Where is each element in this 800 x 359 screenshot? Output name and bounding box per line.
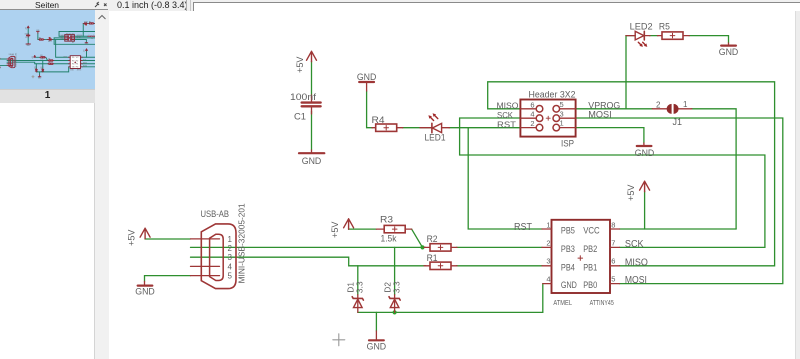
svg-text:MOSI: MOSI <box>625 275 647 286</box>
svg-text:R1: R1 <box>48 62 50 64</box>
net label MISO (ISP left) <box>497 101 520 111</box>
GND symbol above R4 (flipped) <box>357 72 377 91</box>
svg-text:D1: D1 <box>35 66 37 68</box>
LED LED2 <box>626 22 653 47</box>
+5V symbol above C1 <box>295 51 317 73</box>
wire +5V to C1 <box>311 62 313 98</box>
svg-text:GND: GND <box>719 47 739 57</box>
wire USB pin 3 with jog to R1 (D+ net) <box>191 257 426 266</box>
svg-text:ISP: ISP <box>72 42 75 44</box>
wire D1 up to D+ net <box>357 266 359 295</box>
jumper J1 <box>652 100 692 128</box>
LED LED1 <box>420 113 449 143</box>
svg-text:R3: R3 <box>380 215 393 226</box>
zener diode D2 3.3 <box>382 281 401 312</box>
svg-text:+5V: +5V <box>295 57 305 74</box>
svg-text:MISO: MISO <box>83 63 88 65</box>
svg-text:J1: J1 <box>673 117 683 128</box>
wire USB pin 5 to GND <box>145 276 191 282</box>
wire SCK net: ISP pin 4 around to IC pin 7 <box>460 118 765 247</box>
svg-text:ATMEL: ATMEL <box>71 69 74 72</box>
svg-text:RST: RST <box>514 222 532 233</box>
net label RST (IC pin 1) <box>514 222 532 233</box>
svg-text:3: 3 <box>546 257 550 266</box>
wire LED2 to R5 <box>650 35 659 37</box>
svg-text:GND: GND <box>0 68 2 70</box>
svg-text:1: 1 <box>228 235 233 244</box>
zener diode D1 3.3 <box>346 281 365 312</box>
net label MISO (IC pin 6) <box>625 258 648 269</box>
sheet origin cross <box>333 334 345 346</box>
svg-text:PB0: PB0 <box>583 280 597 290</box>
svg-text:C1: C1 <box>25 37 27 39</box>
svg-text:LED1: LED1 <box>425 133 446 144</box>
svg-text:+5V: +5V <box>32 55 34 59</box>
right canvas scrollbar strip <box>795 11 800 359</box>
svg-text:2: 2 <box>546 239 550 248</box>
svg-text:4: 4 <box>546 274 550 283</box>
svg-text:LED2: LED2 <box>630 22 653 33</box>
svg-text:GND: GND <box>367 342 387 352</box>
svg-text:GND: GND <box>135 286 155 296</box>
svg-text:J1: J1 <box>91 38 93 40</box>
svg-text:3.3: 3.3 <box>355 281 365 293</box>
svg-text:R1: R1 <box>427 253 438 264</box>
svg-text:+5V: +5V <box>84 49 86 53</box>
svg-text:PB4: PB4 <box>561 262 575 272</box>
svg-text:3: 3 <box>228 253 233 262</box>
pin header ISP (Header 3X2) <box>520 90 575 150</box>
left panel scrollbar <box>95 10 109 359</box>
svg-text:1: 1 <box>560 119 564 128</box>
wire R5 to GND <box>689 36 729 43</box>
svg-text:R2: R2 <box>48 59 50 61</box>
wire +5V to R3 <box>349 228 377 230</box>
svg-text:USB-AB: USB-AB <box>9 53 15 56</box>
svg-text:LED1: LED1 <box>48 41 52 43</box>
IC U1 ATTINY45 <box>542 220 620 307</box>
connector X1 USB-AB MINI-USB-32005-201 <box>191 203 247 289</box>
wire MOSI net: ISP pin 3 to IC pin 5 <box>576 118 783 284</box>
wire C1 to GND <box>311 111 313 150</box>
svg-text:MOSI: MOSI <box>83 66 87 68</box>
window chrome: toolbar strip <box>108 0 800 11</box>
svg-text:GND: GND <box>357 72 377 82</box>
svg-text:R4: R4 <box>372 115 385 126</box>
svg-text:ATMEL: ATMEL <box>553 298 572 307</box>
svg-text:1: 1 <box>546 220 550 229</box>
svg-text:GND: GND <box>36 30 40 32</box>
svg-text:ATTINY45: ATTINY45 <box>77 69 81 72</box>
GND symbol right of R5 <box>719 43 739 57</box>
svg-text:4: 4 <box>530 110 534 119</box>
svg-text:GND: GND <box>561 280 577 290</box>
wire ground bus stub to GND symbol <box>375 312 377 331</box>
net label RST (ISP left) <box>497 119 516 129</box>
+5V symbol at USB pin 1 <box>127 228 151 246</box>
wire R3 diagonal to D- net junction <box>412 229 423 247</box>
wire RST net drop to IC pin 1 <box>468 128 542 229</box>
GND symbol below ISP header <box>635 143 655 158</box>
net label VPROG <box>588 100 620 110</box>
svg-text:4: 4 <box>228 262 233 271</box>
svg-text:1.5k: 1.5k <box>40 58 43 60</box>
wire +5V to VCC row <box>644 192 646 229</box>
+5V symbol above IC VCC <box>626 181 649 201</box>
svg-text:PB5: PB5 <box>561 226 575 236</box>
svg-text:MISO: MISO <box>625 258 648 269</box>
svg-text:Header 3X2: Header 3X2 <box>529 90 576 100</box>
svg-text:R5: R5 <box>659 22 670 33</box>
svg-text:RST: RST <box>497 119 516 129</box>
svg-text:USB-AB: USB-AB <box>201 209 230 220</box>
svg-text:100nf: 100nf <box>24 34 29 36</box>
wire R2 to IC pin 2 <box>457 246 543 248</box>
svg-text:LED2: LED2 <box>84 21 88 23</box>
svg-text:MOSI: MOSI <box>588 110 611 120</box>
svg-text:C1: C1 <box>294 112 306 123</box>
svg-text:7: 7 <box>611 239 615 248</box>
svg-text:PB1: PB1 <box>583 262 597 272</box>
svg-text:+5V: +5V <box>330 222 340 239</box>
svg-text:1.5k: 1.5k <box>381 233 397 244</box>
svg-text:5: 5 <box>228 272 233 281</box>
svg-text:6: 6 <box>611 257 615 266</box>
svg-text:5: 5 <box>560 100 564 109</box>
svg-text:Header 3X2: Header 3X2 <box>66 33 74 35</box>
svg-text:D2: D2 <box>41 66 43 68</box>
resistor R4 <box>372 115 403 131</box>
wire R1 to IC pin 3 <box>457 265 543 267</box>
wire VPROG net: ISP pin 5 to J1 pin 2 <box>576 108 653 110</box>
svg-text:2: 2 <box>656 101 661 110</box>
svg-text:GND: GND <box>635 148 655 158</box>
svg-text:8: 8 <box>611 220 615 229</box>
GND symbol below USB pin 5 <box>135 281 155 296</box>
capacitor C1 <box>290 92 321 123</box>
svg-text:GND: GND <box>27 45 31 47</box>
svg-text:ISP: ISP <box>561 139 574 150</box>
wire ISP pin 1 to GND <box>576 128 644 143</box>
resistor R5 <box>658 22 690 40</box>
junction D- net at R3 <box>420 245 424 249</box>
svg-text:MINI-USB-32005-201: MINI-USB-32005-201 <box>238 203 247 284</box>
wire D2 up to D- net <box>394 247 396 294</box>
svg-text:R5: R5 <box>89 21 91 23</box>
svg-text:VCC: VCC <box>583 226 600 236</box>
wire R4 to LED1 <box>403 127 431 129</box>
wire GND to R4 (net from flipped GND) <box>367 91 373 128</box>
left panel: Seiten header <box>0 0 108 10</box>
svg-text:+5V: +5V <box>626 185 636 202</box>
wire LED2 branch up from VPROG net <box>626 36 635 109</box>
svg-text:ATTINY45: ATTINY45 <box>590 298 614 307</box>
wire J1 pin 1 down to VCC row <box>692 109 736 229</box>
svg-text:MINI-USB-32005-201: MINI-USB-32005-201 <box>15 53 17 67</box>
svg-text:3.3: 3.3 <box>391 281 401 293</box>
net label MOSI (ISP right) <box>588 110 611 120</box>
page thumbnail (mini copy of schematic) <box>0 10 95 89</box>
svg-text:SCK: SCK <box>625 239 644 250</box>
GND symbol below ground bus <box>367 331 387 352</box>
svg-text:GND: GND <box>302 156 322 166</box>
resistor R1 <box>424 253 457 270</box>
wire MISO net: ISP pin 6 over the top to IC pin 6 <box>488 82 775 266</box>
svg-text:R3: R3 <box>40 55 42 57</box>
svg-text:3: 3 <box>560 109 564 118</box>
+5V symbol at R3 <box>330 219 353 238</box>
svg-text:+5V: +5V <box>127 230 137 247</box>
svg-text:1: 1 <box>683 100 688 109</box>
resistor R3 <box>376 215 411 245</box>
wire USB pin 2 to R2 (D- net) <box>191 246 426 248</box>
svg-text:5: 5 <box>611 274 615 283</box>
resistor R2 <box>424 234 457 251</box>
svg-text:R4: R4 <box>39 38 41 40</box>
wire LED1 to ISP pin 2 (RST net) <box>449 127 520 129</box>
svg-text:GND: GND <box>38 77 42 79</box>
junction ground bus at D2 <box>393 310 397 314</box>
GND symbol below C1 <box>299 150 324 166</box>
net label SCK (ISP left) <box>497 110 513 120</box>
svg-text:R2: R2 <box>427 234 438 245</box>
svg-text:PB3: PB3 <box>561 244 575 254</box>
svg-text:PB2: PB2 <box>583 244 597 254</box>
wire +5V to USB pin 1 <box>145 237 190 240</box>
net label SCK (IC pin 7) <box>625 239 644 250</box>
net label MOSI (IC pin 5) <box>625 275 647 286</box>
svg-text:2: 2 <box>228 244 233 253</box>
wire VCC: IC pin 8 to riser <box>620 228 737 230</box>
wire ground bus below diodes to IC pin 4 <box>358 284 543 313</box>
svg-text:VPROG: VPROG <box>77 35 83 37</box>
pin + close icons <box>93 1 108 9</box>
svg-text:6: 6 <box>530 100 534 109</box>
svg-text:2: 2 <box>530 119 534 128</box>
svg-text:SCK: SCK <box>497 110 513 120</box>
svg-text:100nf: 100nf <box>290 92 316 103</box>
